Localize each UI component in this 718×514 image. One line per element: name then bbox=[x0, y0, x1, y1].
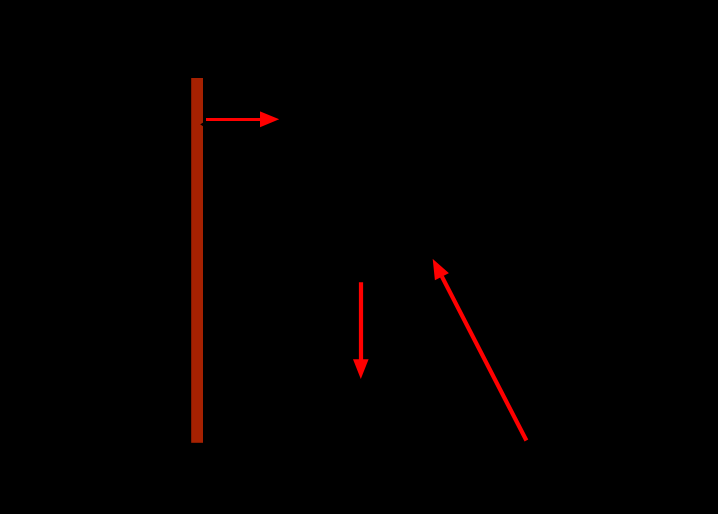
arrow A2: vertical red arrow pointing down bbox=[353, 282, 369, 379]
charged plate (vertical brick-red bar) bbox=[191, 78, 203, 443]
black pointer arrowhead (tip overlapping plate right edge) bbox=[200, 121, 205, 128]
arrow A3: diagonal red arrow pointing up-left bbox=[433, 259, 527, 441]
arrow A1: horizontal red arrow from plate bbox=[206, 111, 279, 127]
